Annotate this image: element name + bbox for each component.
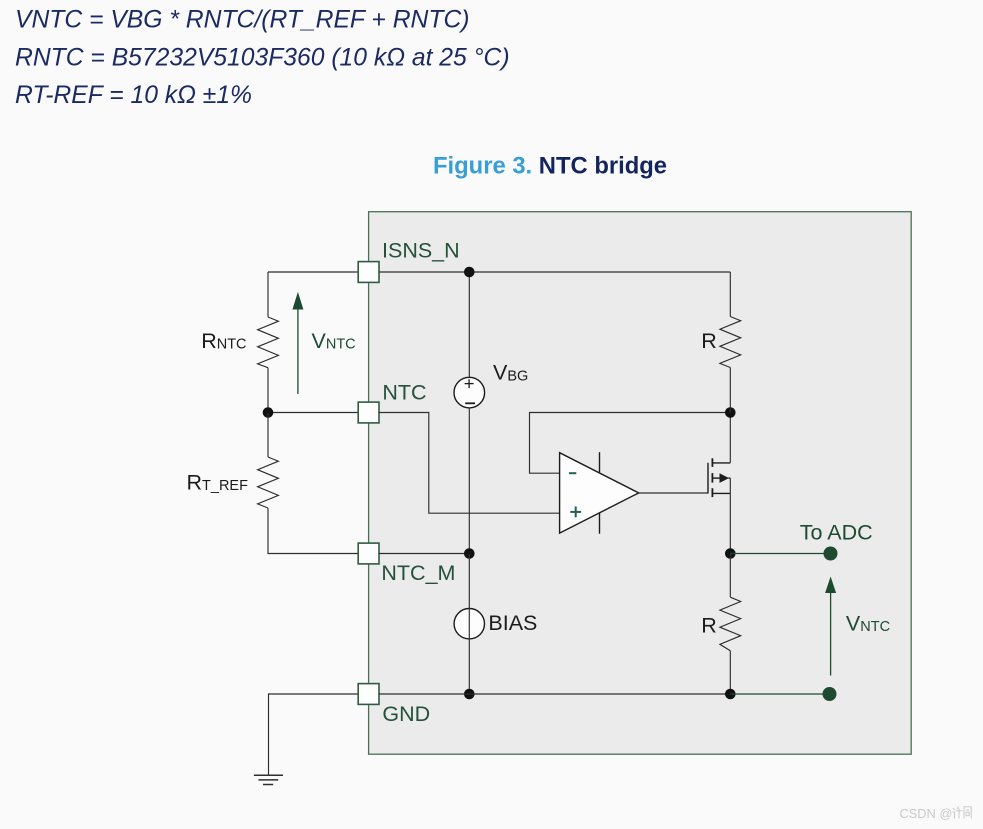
node feedback/drain bbox=[725, 407, 736, 418]
svg-text:R: R bbox=[701, 329, 717, 353]
wire op-amp output bbox=[639, 492, 708, 494]
pin GND bbox=[358, 684, 379, 705]
svg-text:NTC: NTC bbox=[382, 380, 426, 404]
wire feedback bbox=[530, 413, 731, 474]
svg-text:BIAS: BIAS bbox=[488, 611, 537, 635]
watermark glyph tong bbox=[964, 807, 971, 819]
wire R lower bottom bbox=[729, 651, 731, 694]
svg-text:VNTC = VBG * RNTC/(RT_REF + RN: VNTC = VBG * RNTC/(RT_REF + RNTC) bbox=[15, 7, 470, 34]
node To ADC bbox=[725, 548, 736, 559]
current source BIAS bbox=[454, 609, 484, 639]
pin NTC_M bbox=[358, 543, 379, 564]
arrow VNTC left bbox=[292, 292, 303, 394]
wire left branch upper (to RNTC) bbox=[267, 272, 269, 317]
wire RNTC bottom to node bbox=[267, 368, 269, 413]
arrow VNTC right bbox=[825, 577, 836, 676]
wire VBG to NTC_M node bbox=[468, 408, 470, 554]
ground bbox=[254, 775, 283, 784]
wire R upper bottom bbox=[729, 368, 731, 413]
wire GND to terminal green bbox=[730, 693, 829, 695]
node GND/R bbox=[725, 689, 736, 700]
wire R lower top bbox=[729, 554, 731, 598]
svg-text:RNTC = B57232V5103F360 (10 kΩ: RNTC = B57232V5103F360 (10 kΩ at 25 °C) bbox=[15, 45, 510, 72]
wire GND net right bbox=[379, 693, 730, 695]
svg-text:R: R bbox=[701, 614, 717, 638]
node on ISNS_N at VBG bbox=[464, 267, 475, 278]
svg-text:GND: GND bbox=[382, 702, 430, 726]
node at RNTC/RT_REF junction bbox=[263, 407, 274, 418]
terminal VNTC bottom bbox=[823, 687, 837, 701]
wire drain up bbox=[729, 413, 731, 463]
wire source down bbox=[729, 478, 731, 553]
wire To ADC green bbox=[730, 553, 830, 555]
watermark glyph xu bbox=[953, 807, 963, 819]
svg-text:RT-REF = 10 kΩ ±1%: RT-REF = 10 kΩ ±1% bbox=[15, 82, 252, 109]
wire NTC net left bbox=[268, 412, 358, 414]
resistor R lower bbox=[720, 597, 741, 651]
wire through BIAS to GND bbox=[468, 554, 470, 695]
wire R top vertical bbox=[729, 272, 731, 317]
wire left branch to RT_REF bbox=[267, 413, 269, 458]
svg-text:NTC_M: NTC_M bbox=[381, 561, 455, 585]
wire NTC net inside bbox=[379, 413, 560, 514]
svg-text:ISNS_N: ISNS_N bbox=[382, 238, 460, 262]
svg-text:To ADC: To ADC bbox=[800, 521, 873, 545]
node NTC_M / BIAS bbox=[464, 548, 475, 559]
wire NTC_M net bbox=[379, 553, 469, 555]
svg-text:Figure 3. NTC bridge: Figure 3. NTC bridge bbox=[433, 152, 667, 179]
node GND at BIAS bbox=[464, 689, 475, 700]
op-amp U1 bbox=[560, 452, 639, 534]
wire RT_REF bottom bbox=[268, 508, 358, 554]
pin ISNS_N bbox=[358, 262, 379, 283]
wire VBG vertical upper bbox=[468, 272, 470, 377]
transistor M1 bbox=[708, 458, 730, 497]
wire GND net left bbox=[269, 694, 359, 775]
terminal To ADC bbox=[824, 547, 838, 561]
pin NTC bbox=[358, 402, 379, 423]
svg-text:CSDN @: CSDN @ bbox=[900, 806, 953, 821]
IC boundary box bbox=[369, 212, 912, 755]
source VBG bbox=[454, 377, 485, 408]
wire ISNS_N net horizontal bbox=[268, 271, 730, 273]
resistor RT_REF bbox=[258, 457, 279, 508]
resistor R upper bbox=[720, 317, 741, 368]
resistor RNTC bbox=[258, 317, 279, 368]
